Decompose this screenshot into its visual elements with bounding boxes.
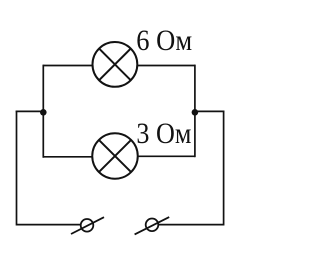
- wire left outer vertical: [16, 111, 18, 226]
- wire bottom-left horizontal: [17, 224, 81, 226]
- wire lamp2 right horizontal: [137, 155, 195, 157]
- wire right junction to outer: [195, 110, 225, 112]
- wire right inner vertical: [194, 65, 196, 158]
- wire left inner vertical: [42, 65, 44, 158]
- terminal X1: [71, 217, 104, 234]
- wire top-left horizontal: [43, 65, 93, 67]
- lamp HL2 3 Ом: [92, 133, 138, 179]
- terminal X2: [135, 217, 170, 234]
- node left junction: [40, 109, 47, 116]
- wire left junction to outer: [16, 110, 44, 112]
- svg-text:3 Ом: 3 Ом: [136, 117, 191, 150]
- wire top-right horizontal: [137, 65, 195, 67]
- node right junction: [192, 109, 199, 116]
- svg-text:6 Ом: 6 Ом: [136, 24, 192, 57]
- wire right outer vertical: [223, 111, 225, 226]
- wire bottom-right horizontal: [158, 224, 223, 226]
- wire lamp2 left horizontal: [43, 156, 93, 158]
- lamp HL1 6 Ом: [93, 42, 138, 87]
